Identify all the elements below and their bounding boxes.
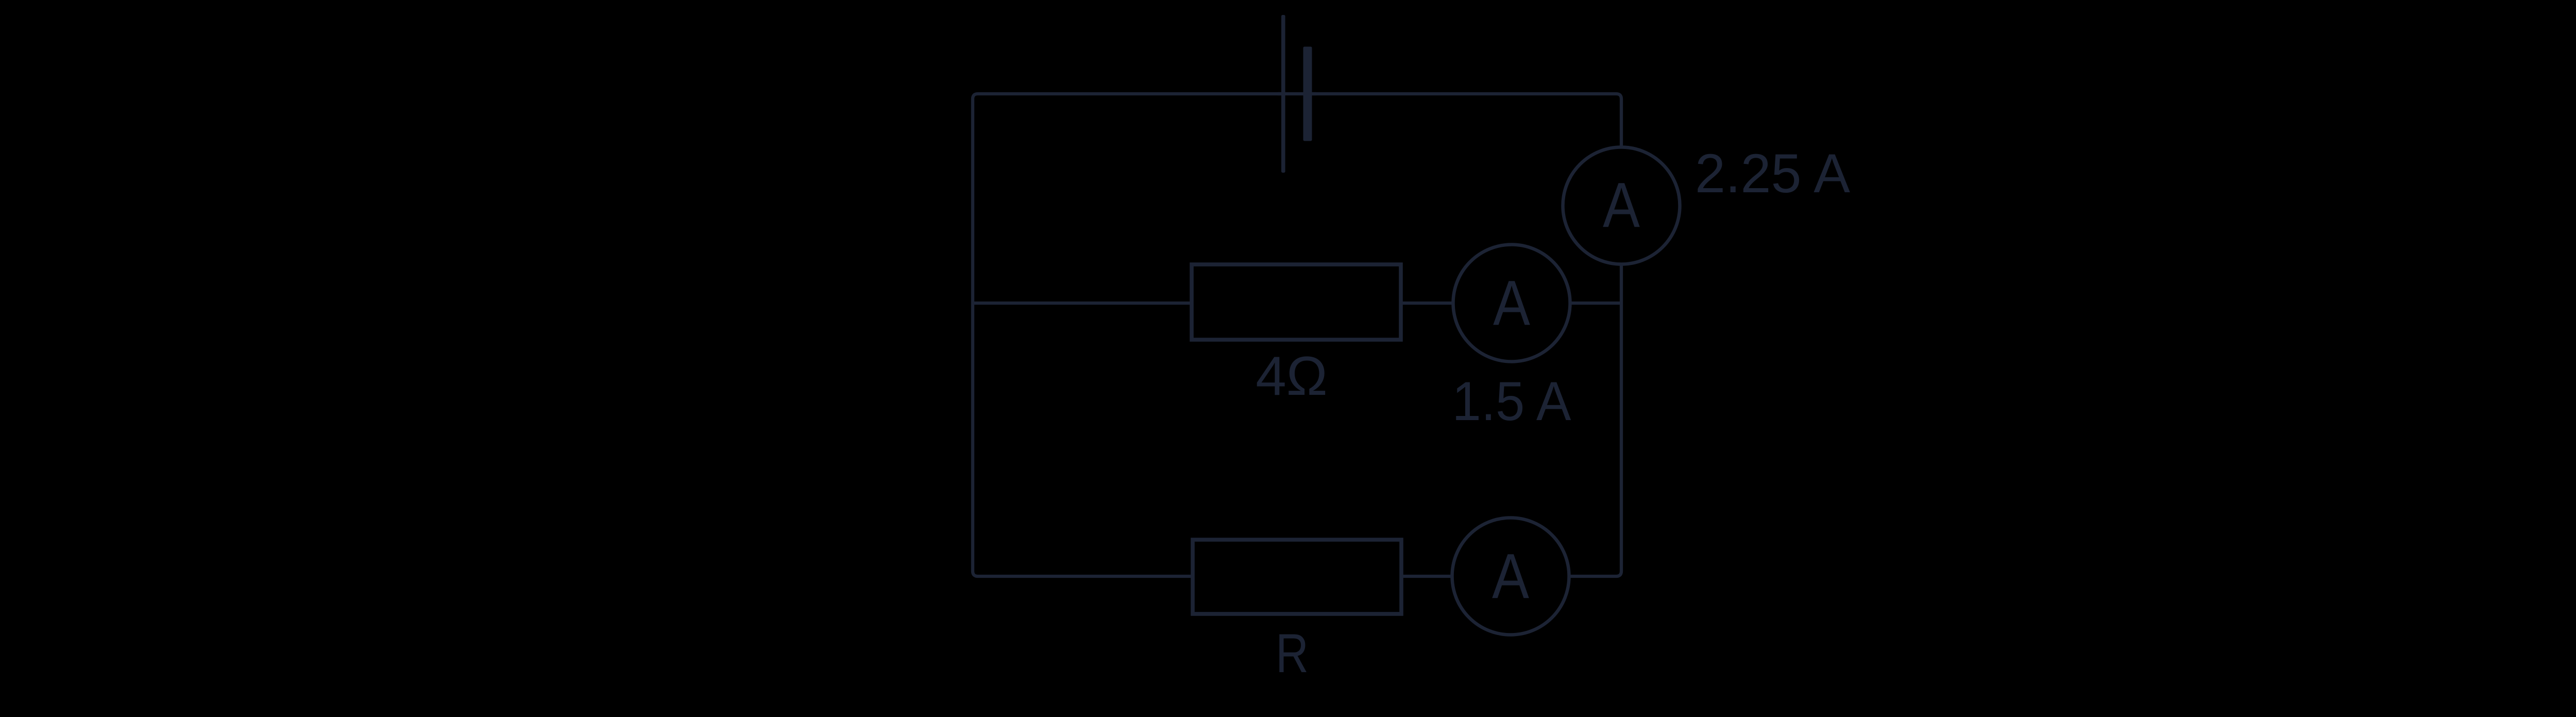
ammeter A3 bottom circle xyxy=(1452,518,1569,635)
resistor R box xyxy=(1193,540,1401,614)
battery long plate xyxy=(1281,15,1285,173)
svg-text:A: A xyxy=(1493,269,1530,339)
wire outer loop xyxy=(973,94,1621,576)
svg-text:1.5 A: 1.5 A xyxy=(1452,370,1572,432)
svg-text:4Ω: 4Ω xyxy=(1256,345,1328,407)
ammeter A1 top right circle xyxy=(1563,147,1680,264)
svg-text:A: A xyxy=(1492,542,1529,612)
svg-text:R: R xyxy=(1276,622,1309,684)
wire top rail through battery xyxy=(1278,92,1316,95)
svg-text:2.25 A: 2.25 A xyxy=(1695,142,1851,204)
wire middle branch xyxy=(973,302,1621,305)
svg-text:A: A xyxy=(1603,171,1640,241)
resistor 4ohm box xyxy=(1192,264,1401,340)
ammeter A2 middle circle xyxy=(1453,245,1570,362)
battery short thick plate xyxy=(1303,47,1312,141)
